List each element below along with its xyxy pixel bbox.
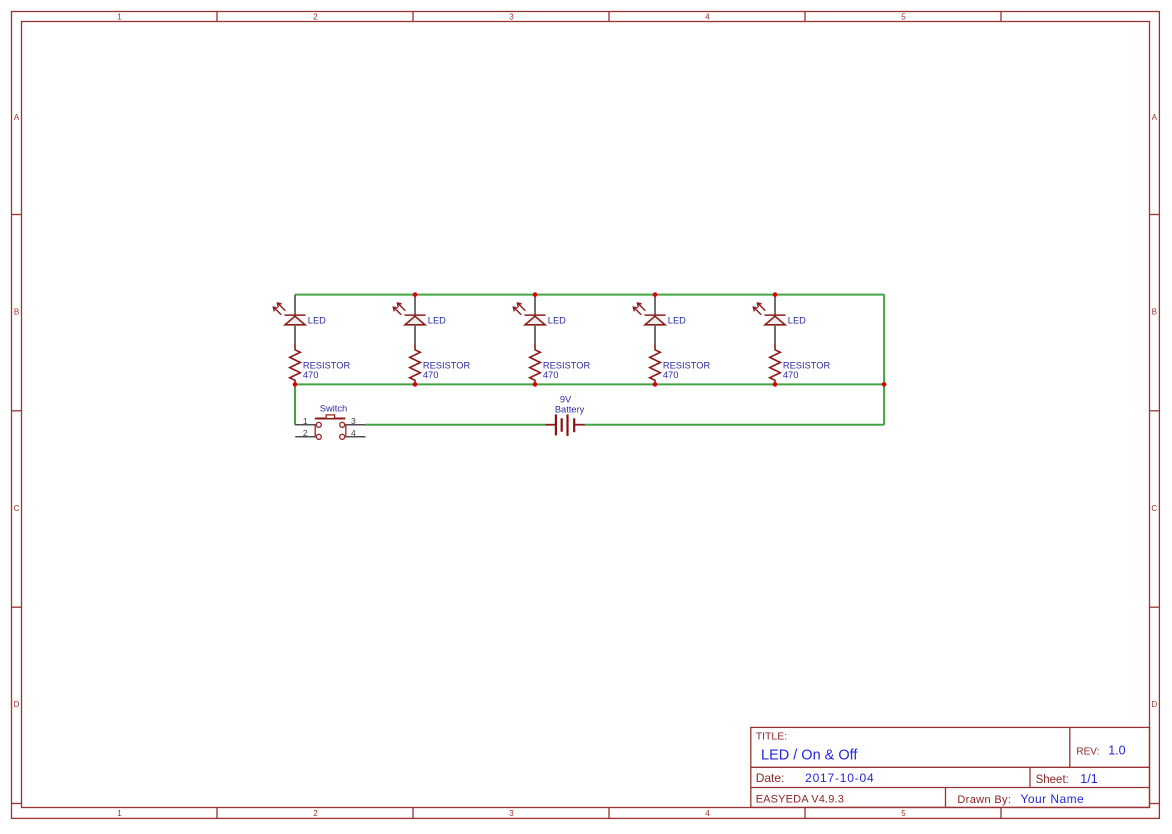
svg-text:3: 3: [509, 809, 514, 818]
svg-text:2: 2: [313, 809, 318, 818]
resistor R1: [290, 344, 301, 384]
battery BT1 left lead: [545, 424, 556, 426]
svg-text:5: 5: [901, 12, 906, 21]
title block values: [761, 744, 1126, 806]
svg-text:Date:: Date:: [756, 771, 785, 785]
wire LED2 top lead: [414, 295, 416, 315]
junction second bus at x=415: [413, 382, 418, 387]
svg-text:1: 1: [303, 416, 308, 426]
svg-text:470: 470: [663, 370, 679, 380]
LED LED5: [753, 303, 785, 325]
wire switch S1 pin4 lead: [345, 436, 366, 438]
svg-text:LED: LED: [308, 316, 326, 326]
svg-text:1: 1: [117, 809, 122, 818]
junction second bus at x=535: [533, 382, 538, 387]
svg-text:LED: LED: [428, 316, 446, 326]
svg-text:1/1: 1/1: [1080, 772, 1097, 786]
junction top bus at x=415: [413, 292, 418, 297]
svg-text:D: D: [14, 700, 20, 709]
svg-text:B: B: [14, 308, 19, 317]
battery BT1: [556, 414, 574, 436]
junction top bus at x=775: [773, 292, 778, 297]
LED LED1: [273, 303, 305, 325]
svg-text:2: 2: [303, 428, 308, 438]
svg-text:Sheet:: Sheet:: [1036, 774, 1069, 786]
wire switch S1 pin1 lead: [295, 424, 316, 426]
wire switch S1 pin2 lead: [295, 436, 316, 438]
resistor R4: [650, 344, 661, 384]
svg-text:A: A: [14, 113, 20, 122]
resistor R2: [410, 344, 421, 384]
svg-text:D: D: [1151, 700, 1157, 709]
wire switch S1 pin3 lead: [345, 424, 365, 426]
svg-text:LED: LED: [788, 316, 806, 326]
svg-text:1: 1: [117, 12, 122, 21]
wire left vertical to switch: [294, 384, 296, 424]
wire LED2 to R2: [414, 325, 416, 345]
resistor R5: [770, 344, 781, 384]
svg-text:C: C: [14, 504, 20, 513]
junction top bus at x=535: [533, 292, 538, 297]
wire switch pin3 to battery: [365, 424, 545, 426]
svg-text:9V: 9V: [560, 394, 572, 404]
wire LED4 to R4: [654, 325, 656, 345]
svg-text:B: B: [1152, 308, 1157, 317]
label BT1 "9V Battery": [555, 394, 585, 414]
label R5 value "RESISTOR 470": [783, 361, 831, 380]
wire battery to right vertical: [585, 424, 884, 426]
wire LED1 top lead: [294, 295, 296, 315]
svg-text:C: C: [1151, 504, 1157, 513]
svg-text:LED: LED: [548, 316, 566, 326]
svg-text:REV:: REV:: [1076, 746, 1099, 757]
svg-text:Switch: Switch: [320, 403, 347, 413]
title block field labels: [756, 731, 1100, 806]
svg-text:LED / On & Off: LED / On & Off: [761, 747, 858, 763]
svg-text:1.0: 1.0: [1108, 744, 1125, 758]
junction second bus at x=655: [653, 382, 658, 387]
wire LED3 to R3: [534, 325, 536, 345]
LED LED4: [633, 303, 665, 325]
wire second bus (resistor bottoms net): [295, 383, 884, 385]
junction second bus at x=775: [773, 382, 778, 387]
label R2 value "RESISTOR 470": [423, 361, 471, 380]
junction second bus right end: [882, 382, 887, 387]
svg-text:4: 4: [351, 428, 356, 438]
label R1 value "RESISTOR 470": [303, 361, 351, 380]
svg-text:470: 470: [783, 370, 799, 380]
svg-text:4: 4: [705, 809, 710, 818]
svg-text:2017-10-04: 2017-10-04: [805, 771, 874, 785]
svg-text:A: A: [1152, 113, 1158, 122]
wire right vertical: [883, 295, 885, 425]
battery BT1 right lead: [574, 424, 585, 426]
junction top bus at x=655: [653, 292, 658, 297]
title block: [751, 727, 1150, 807]
svg-text:Battery: Battery: [555, 405, 585, 415]
svg-text:470: 470: [423, 370, 439, 380]
svg-text:2: 2: [313, 12, 318, 21]
wire LED5 top lead: [774, 295, 776, 315]
pushbutton switch S1: [315, 422, 346, 439]
resistor R3: [530, 344, 541, 384]
wire LED3 top lead: [534, 295, 536, 315]
svg-text:4: 4: [705, 12, 710, 21]
svg-text:470: 470: [543, 370, 559, 380]
svg-text:470: 470: [303, 370, 319, 380]
wire LED1 to R1: [294, 325, 296, 345]
svg-text:EASYEDA V4.9.3: EASYEDA V4.9.3: [756, 794, 844, 806]
wire top bus (LED anodes net): [295, 294, 884, 296]
svg-text:LED: LED: [668, 316, 686, 326]
wire LED4 top lead: [654, 295, 656, 315]
LED LED2: [393, 303, 425, 325]
LED LED3: [513, 303, 545, 325]
switch S1 actuator bar: [315, 418, 346, 420]
svg-text:TITLE:: TITLE:: [756, 731, 788, 743]
label R3 value "RESISTOR 470": [543, 361, 591, 380]
svg-text:Your Name: Your Name: [1021, 792, 1085, 806]
svg-text:3: 3: [351, 416, 356, 426]
svg-text:3: 3: [509, 12, 514, 21]
svg-text:5: 5: [901, 809, 906, 818]
svg-text:Drawn By:: Drawn By:: [957, 794, 1011, 806]
junction second bus at x=295: [293, 382, 298, 387]
label R4 value "RESISTOR 470": [663, 361, 711, 380]
wire LED5 to R5: [774, 325, 776, 345]
